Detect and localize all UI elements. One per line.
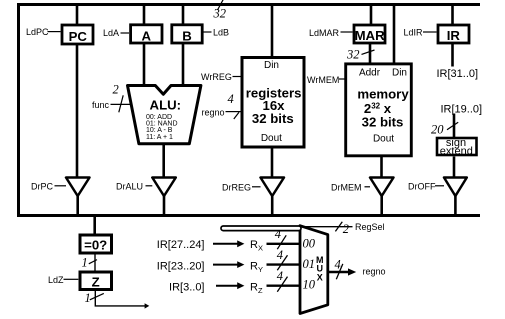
LdB xyxy=(204,31,212,33)
wire sign extend to DrOFF xyxy=(453,157,456,179)
svg-text:IR[31..0]: IR[31..0] xyxy=(437,68,479,80)
svg-text:PC: PC xyxy=(69,29,88,44)
left bus xyxy=(17,3,20,217)
svg-text:DrPC: DrPC xyxy=(31,181,53,191)
svg-text:MAR: MAR xyxy=(355,28,386,43)
svg-text:Addr: Addr xyxy=(359,68,381,79)
wire memory Dout to DrMEM xyxy=(380,156,383,178)
svg-text:LdB: LdB xyxy=(213,28,229,38)
wire IR out xyxy=(451,44,454,67)
svg-text:DrMEM: DrMEM xyxy=(331,182,362,192)
register MAR xyxy=(354,25,385,43)
wire RegSel xyxy=(301,226,353,228)
arrow IR[27..24] to RX xyxy=(213,243,238,245)
op-amp ALU xyxy=(128,86,201,144)
wire IR[19..0] to sign extend xyxy=(453,114,456,139)
svg-text:DrALU: DrALU xyxy=(116,181,143,191)
tri-state DrREG xyxy=(261,178,285,197)
tri-state DrOFF xyxy=(444,178,467,197)
wire PC to DrPC xyxy=(76,45,79,178)
register PC xyxy=(62,25,93,44)
wire bus to A xyxy=(143,5,146,26)
svg-text:1: 1 xyxy=(85,291,91,305)
sign extend box xyxy=(437,138,477,155)
svg-text:LdMAR: LdMAR xyxy=(309,28,340,38)
wire DrMEM to bus xyxy=(380,195,383,215)
RegSel bar to mux select xyxy=(221,226,301,231)
wire DrALU to bus xyxy=(163,195,166,215)
svg-text:32: 32 xyxy=(346,48,360,62)
wire bus to =0? xyxy=(93,216,96,235)
svg-text:A: A xyxy=(142,29,152,44)
svg-text:Dout: Dout xyxy=(261,133,282,144)
svg-text:Dout: Dout xyxy=(373,134,394,145)
svg-text:extend: extend xyxy=(440,146,473,158)
register A xyxy=(131,25,162,43)
svg-text:Z: Z xyxy=(92,275,100,290)
svg-text:WrMEM: WrMEM xyxy=(307,75,339,85)
svg-text:IR: IR xyxy=(447,28,461,43)
svg-text:4: 4 xyxy=(277,248,283,262)
svg-text:ALU:: ALU: xyxy=(150,98,182,113)
svg-text:32 bits: 32 bits xyxy=(362,115,404,130)
registers file box xyxy=(242,58,304,148)
wire ALU to DrALU xyxy=(162,144,165,178)
wire RZ to mux 10 xyxy=(267,285,301,287)
wire A to ALU xyxy=(143,44,146,88)
svg-text:DrOFF: DrOFF xyxy=(408,181,436,191)
svg-text:IR[27..24]: IR[27..24] xyxy=(157,239,205,251)
wire mux output regno xyxy=(329,271,349,273)
svg-text:func: func xyxy=(92,100,110,110)
svg-text:LdPC: LdPC xyxy=(26,27,49,37)
svg-text:10: 10 xyxy=(303,278,316,292)
svg-text:regno: regno xyxy=(363,267,386,277)
svg-text:11: A + 1: 11: A + 1 xyxy=(146,134,173,141)
wire RY to mux 01 xyxy=(267,263,301,265)
wire =0? to Z xyxy=(94,253,96,272)
tri-state DrALU xyxy=(152,178,176,197)
wire bus to IR xyxy=(451,5,454,26)
svg-text:WrREG: WrREG xyxy=(201,72,232,82)
svg-text:2: 2 xyxy=(343,222,349,236)
arrow IR[3..0] to RZ xyxy=(216,285,238,287)
svg-text:=0?: =0? xyxy=(84,237,107,252)
wire RX to mux 00 xyxy=(267,243,301,245)
svg-text:RegSel: RegSel xyxy=(355,222,385,232)
svg-text:LdIR: LdIR xyxy=(404,28,424,38)
wire B to ALU xyxy=(182,44,185,88)
svg-text:IR[23..20]: IR[23..20] xyxy=(157,260,205,272)
svg-text:Din: Din xyxy=(264,60,279,71)
arrow IR[23..20] to RY xyxy=(213,264,238,266)
mux MUX xyxy=(300,226,328,314)
wire DrOFF to bus xyxy=(454,195,457,215)
wire bus to PC xyxy=(76,5,79,26)
comparator =0? xyxy=(80,235,112,253)
svg-text:1: 1 xyxy=(82,255,88,269)
svg-text:DrREG: DrREG xyxy=(222,182,251,192)
svg-text:X: X xyxy=(317,273,323,283)
top bus xyxy=(17,3,480,6)
svg-text:memory: memory xyxy=(357,87,409,102)
svg-text:B: B xyxy=(182,29,192,44)
wire Z out xyxy=(95,291,146,306)
wire MAR to memory Addr xyxy=(369,44,372,64)
register Z xyxy=(80,272,112,290)
svg-text:01: 01 xyxy=(303,257,316,271)
wire bus to B xyxy=(182,5,185,26)
wire bus to MAR xyxy=(370,5,373,26)
register IR xyxy=(438,25,469,43)
wire DrREG to bus xyxy=(271,195,274,215)
svg-text:LdZ: LdZ xyxy=(48,275,64,285)
svg-text:20: 20 xyxy=(431,123,444,137)
wire bus to memory Din xyxy=(393,5,396,65)
svg-text:2: 2 xyxy=(113,83,119,97)
svg-text:IR[19..0]: IR[19..0] xyxy=(441,103,483,115)
svg-text:32 bits: 32 bits xyxy=(252,111,294,126)
bottom bus xyxy=(17,214,480,217)
svg-text:4: 4 xyxy=(277,269,283,283)
wire bus to registers Din xyxy=(271,5,274,59)
svg-text:00: 00 xyxy=(303,236,316,250)
svg-text:IR[3..0]: IR[3..0] xyxy=(169,282,204,294)
svg-text:32: 32 xyxy=(213,7,227,21)
svg-text:Din: Din xyxy=(392,68,407,79)
wire DrPC to bus xyxy=(76,195,79,215)
tri-state DrPC xyxy=(66,178,90,197)
register B xyxy=(172,25,202,43)
wire registers Dout to DrREG xyxy=(271,147,274,178)
tri-state DrMEM xyxy=(370,178,394,197)
svg-text:regno: regno xyxy=(202,108,225,118)
bus width tick 32 xyxy=(218,0,224,10)
svg-text:4: 4 xyxy=(228,92,234,106)
svg-text:LdA: LdA xyxy=(103,28,119,38)
memory box xyxy=(346,64,412,156)
